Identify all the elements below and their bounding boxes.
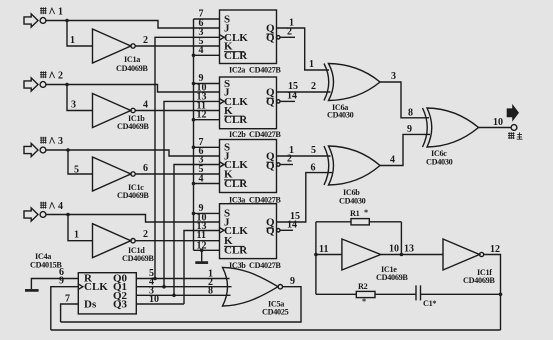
svg-text:14: 14	[287, 220, 297, 231]
svg-text:4: 4	[199, 45, 204, 56]
svg-text:IC2a: IC2a	[229, 66, 245, 75]
svg-text:1: 1	[309, 59, 314, 70]
svg-text:CD4030: CD4030	[327, 111, 354, 120]
wire IC2a CLK pin3 to Q0 vertical	[155, 37, 220, 278]
node Q2 to CLK tap	[172, 294, 176, 298]
svg-text:4: 4	[199, 174, 204, 185]
wire input4 to inverter IC1d	[68, 215, 93, 241]
node input2 junction	[65, 83, 69, 87]
wire R1 left vertical to IC1e input node	[315, 222, 317, 294]
svg-text:CD4027B: CD4027B	[249, 261, 281, 270]
node IC1e input	[314, 253, 318, 257]
wire IC2b CLK pin13 to Q1 vertical	[164, 101, 220, 286]
node Q0 to CLK tap	[153, 277, 157, 281]
wire input3 to inverter IC1c	[68, 150, 93, 174]
resistor R1	[316, 208, 402, 225]
svg-text:CD4069B: CD4069B	[117, 191, 149, 200]
xor gate IC6c CD4030	[423, 108, 479, 167]
svg-text:2: 2	[287, 154, 292, 165]
wire IC4a CLK pin9 to clock line	[51, 287, 79, 330]
IC3b Qbar pin14 stub	[277, 229, 280, 232]
wire input3 to J of IC3a	[46, 150, 220, 156]
svg-text:Q: Q	[266, 225, 275, 237]
ground at IC3b CLR	[195, 249, 208, 263]
svg-text:CD4069B: CD4069B	[116, 64, 148, 73]
node Q1 to CLK tap	[162, 285, 166, 289]
svg-text:12: 12	[490, 244, 500, 255]
shift register IC4a CD4015B	[30, 252, 136, 314]
wire IC2a Q pin1 to IC6a input 1	[277, 28, 330, 70]
IC2a Qbar pin2 stub	[277, 36, 280, 39]
svg-text:13: 13	[404, 244, 414, 255]
input terminal 输入2	[24, 71, 63, 92]
node input4 junction	[66, 213, 70, 217]
svg-text:2: 2	[311, 81, 316, 92]
svg-text:6: 6	[311, 163, 316, 174]
capacitor C1	[416, 285, 436, 308]
wire IC1b output pin4 to K of IC2b	[135, 110, 219, 112]
wire IC1c output pin6 to K of IC3a	[135, 173, 219, 175]
IC3a Qbar pin2 stub	[277, 163, 280, 166]
svg-text:12: 12	[197, 110, 207, 121]
wire IC1e output pin10 to IC1f input pin13	[381, 254, 443, 256]
node input3 junction	[66, 148, 70, 152]
svg-text:7: 7	[65, 294, 70, 305]
wire IC6a output pin3 to IC6c input 8	[380, 82, 429, 118]
svg-text:5: 5	[311, 145, 316, 156]
input terminal 输入1	[24, 7, 63, 28]
svg-text:8: 8	[408, 107, 413, 118]
clock line from oscillator to IC4a CLK	[51, 329, 501, 331]
svg-text:4: 4	[58, 201, 63, 212]
output terminal 输出	[507, 104, 523, 139]
nor gate IC5a CD4025	[223, 267, 289, 316]
wire input1 to J of IC2a	[46, 21, 220, 29]
svg-text:4: 4	[390, 155, 395, 166]
wire IC1d output pin2 to K of IC3b	[135, 240, 219, 242]
input terminal 输入3	[24, 136, 63, 157]
svg-text:CD4069B: CD4069B	[122, 254, 154, 263]
flip-flop IC3a CD4027B	[219, 140, 281, 205]
svg-text:CD4015B: CD4015B	[30, 261, 62, 270]
wire IC2b Q pin15 to IC6a input 2	[277, 91, 331, 93]
wire IC4a Q2 pin3 to IC5a input 8	[136, 294, 230, 296]
inverter IC1a	[93, 29, 149, 73]
svg-text:4: 4	[143, 100, 148, 111]
svg-text:5: 5	[74, 165, 79, 176]
svg-text:3: 3	[71, 100, 76, 111]
node IC1e output	[400, 253, 404, 257]
svg-text:9: 9	[290, 276, 295, 287]
svg-text:11: 11	[319, 244, 328, 255]
svg-text:*: *	[362, 297, 366, 306]
pin stubs S and CLR of IC2b	[194, 84, 220, 120]
resistor R2	[316, 282, 375, 306]
svg-text:2: 2	[143, 35, 148, 46]
svg-text:Ds: Ds	[84, 299, 97, 311]
svg-text:2: 2	[58, 71, 63, 82]
svg-text:CD4069B: CD4069B	[376, 273, 408, 282]
svg-text:10: 10	[389, 244, 399, 255]
flip-flop IC3b CD4027B	[219, 204, 281, 270]
wire IC4a R pin6 to ground	[31, 279, 78, 290]
inverter IC1c	[93, 157, 150, 200]
xor gate IC6b CD4030	[324, 146, 380, 206]
svg-text:2: 2	[143, 229, 148, 240]
wire IC3b CLK pin13 to Q3 vertical	[184, 231, 220, 305]
svg-text:8: 8	[208, 286, 213, 297]
inverter IC1e	[342, 239, 409, 282]
node input1 junction	[65, 19, 69, 23]
pin stubs S and CLR of IC3a	[194, 147, 220, 183]
input terminal 输入4	[24, 201, 63, 221]
svg-text:IC3a: IC3a	[229, 195, 245, 204]
wire IC4a Q1 pin4 to IC5a input 2	[136, 286, 231, 288]
wire C1 to IC1f output vertical	[421, 293, 501, 295]
svg-text:CD4030: CD4030	[426, 158, 453, 167]
wire IC4a Ds pin7 to feedback line	[61, 304, 79, 322]
wire IC3a CLK pin3 to Q2 vertical	[174, 165, 220, 296]
svg-text:CD4027B: CD4027B	[249, 130, 281, 139]
inverter IC1d	[93, 224, 155, 263]
svg-text:CD4069B: CD4069B	[463, 276, 495, 285]
svg-text:1: 1	[58, 7, 63, 18]
pin stubs S and CLR of IC2a	[194, 19, 220, 55]
wire R2 to C1	[375, 293, 416, 295]
flip-flop IC2a CD4027B	[219, 10, 281, 75]
wire input2 to inverter IC1b	[67, 85, 93, 111]
wire IC3a Q pin1 to IC6b input 5	[277, 155, 331, 157]
xor gate IC6a CD4030	[324, 64, 380, 120]
svg-text:9: 9	[407, 124, 412, 135]
svg-text:CD4069B: CD4069B	[117, 122, 149, 131]
svg-text:CD4027B: CD4027B	[249, 195, 281, 204]
svg-text:2: 2	[287, 27, 292, 38]
set/clear ground bus	[193, 19, 195, 250]
svg-text:*: *	[364, 208, 368, 217]
pin stubs S and CLR of IC3b	[194, 213, 220, 250]
wire node to IC1e input pin11	[316, 254, 342, 256]
svg-text:Q3: Q3	[113, 299, 128, 311]
wire input2 to J of IC2b	[46, 85, 220, 93]
svg-text:CD4027B: CD4027B	[249, 66, 281, 75]
svg-text:R1: R1	[350, 209, 360, 218]
wire IC4a Q3 pin10 to IC3b CLK vertical	[136, 303, 184, 305]
wire input1 to inverter IC1a	[67, 21, 93, 47]
node C1 to IC1f output	[499, 293, 503, 297]
ground at IC4a R	[25, 289, 39, 292]
wire IC6c output pin10 to output terminal	[479, 127, 512, 129]
svg-text:3: 3	[58, 136, 63, 147]
wire IC5a output pin9 to Ds feedback line	[61, 287, 301, 322]
wire input4 to J of IC3b	[46, 215, 220, 223]
inverter IC1b	[93, 94, 150, 132]
svg-text:6: 6	[143, 163, 148, 174]
svg-text:CD4030: CD4030	[339, 197, 366, 206]
svg-text:1: 1	[70, 35, 75, 46]
wire IC4a Q0 pin5 to IC5a input 1	[136, 278, 229, 280]
svg-text:CD4025: CD4025	[262, 308, 289, 317]
svg-text:3: 3	[391, 71, 396, 82]
svg-text:1: 1	[74, 230, 79, 241]
wire IC3b Q pin15 to IC6b input 6	[277, 173, 333, 222]
wire IC6b output pin4 to IC6c input 9	[380, 134, 430, 165]
svg-text:CLK: CLK	[84, 281, 108, 293]
wire IC1a output pin2 to K of IC2a	[135, 45, 219, 47]
svg-text:10: 10	[149, 294, 159, 305]
inverter IC1f	[443, 239, 495, 285]
svg-text:14: 14	[287, 91, 297, 102]
svg-text:IC1a: IC1a	[124, 55, 140, 64]
wire R1 right vertical to IC1e output node	[400, 222, 402, 255]
svg-text:10: 10	[493, 117, 503, 128]
svg-text:IC2b: IC2b	[229, 130, 246, 139]
IC2b Qbar pin14 stub	[277, 100, 280, 103]
svg-text:9: 9	[59, 276, 64, 287]
svg-text:C1*: C1*	[423, 299, 436, 308]
flip-flop IC2b CD4027B	[219, 77, 281, 139]
svg-text:R2: R2	[358, 282, 368, 291]
wire IC1f output pin12 down to clock line	[484, 255, 501, 331]
